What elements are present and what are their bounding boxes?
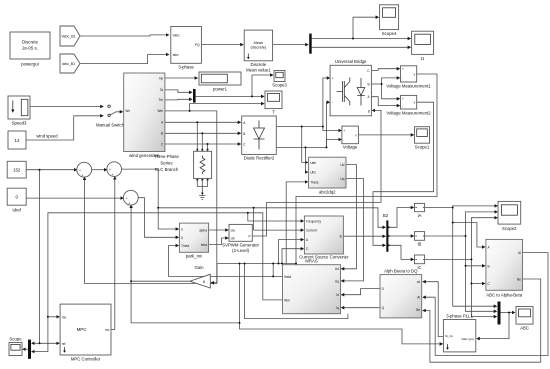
svg-text:(2-Level): (2-Level)	[232, 248, 250, 253]
svg-text:152: 152	[13, 168, 21, 173]
svg-text:alpha: alpha	[199, 228, 207, 232]
svg-text:Al: Al	[518, 251, 521, 255]
svg-text:-: -	[332, 101, 333, 105]
svg-text:+: +	[126, 197, 128, 201]
svg-text:Wm: Wm	[284, 298, 290, 302]
svg-text:ABC to Alpha-Beta: ABC to Alpha-Beta	[486, 293, 522, 298]
svg-text:B: B	[488, 264, 490, 268]
svg-text:+: +	[402, 97, 404, 101]
svg-text:Vabc: Vabc	[173, 33, 180, 37]
svg-text:power1: power1	[213, 87, 228, 92]
svg-text:powergui: powergui	[21, 62, 38, 67]
svg-text:PQ: PQ	[195, 43, 200, 47]
svg-text:+: +	[343, 129, 345, 133]
svg-text:Voltage Measurement1: Voltage Measurement1	[386, 84, 431, 89]
svg-text:Alph Beeta to DQ: Alph Beeta to DQ	[384, 269, 418, 274]
svg-text:ABC: ABC	[520, 326, 529, 331]
svg-text:Vabc (pu): Vabc (pu)	[461, 337, 474, 341]
svg-text:Speed3: Speed3	[12, 121, 27, 126]
svg-text:Three-Phase: Three-Phase	[154, 154, 179, 159]
svg-text:Vabc_B1: Vabc_B1	[61, 35, 75, 39]
svg-text:B: B	[367, 82, 369, 86]
svg-text:Scope1: Scope1	[415, 145, 430, 150]
svg-text:+: +	[128, 201, 130, 205]
svg-text:-: -	[343, 138, 344, 142]
svg-text:iA: iA	[418, 213, 422, 218]
svg-text:-: -	[402, 76, 403, 80]
svg-text:Ud: Ud	[340, 163, 344, 167]
svg-text:park_inv: park_inv	[186, 254, 203, 259]
svg-text:Mean value1: Mean value1	[246, 68, 271, 73]
svg-text:Scope: Scope	[9, 337, 22, 342]
svg-text:12: 12	[15, 138, 20, 143]
svg-text:iB: iB	[418, 242, 422, 247]
svg-text:Ud: Ud	[335, 267, 339, 271]
svg-text:Iq: Iq	[336, 306, 339, 310]
svg-text:T: T	[272, 110, 275, 115]
svg-text:theta: theta	[284, 275, 291, 279]
svg-text:Voltage: Voltage	[343, 145, 358, 150]
svg-text:Voltage Measurement2: Voltage Measurement2	[386, 111, 431, 116]
svg-text:B2: B2	[383, 213, 389, 218]
svg-text:wind speed: wind speed	[36, 134, 58, 139]
svg-text:Si_Co: Si_Co	[445, 334, 454, 338]
svg-text:Tm: Tm	[159, 98, 164, 102]
svg-text:Frequency: Frequency	[306, 219, 321, 223]
svg-text:B: B	[161, 132, 163, 136]
svg-text:Al: Al	[417, 296, 420, 300]
svg-text:2e-05 s.: 2e-05 s.	[22, 46, 38, 51]
svg-text:q: q	[181, 236, 183, 240]
svg-text:mo: mo	[62, 315, 67, 319]
svg-text:Gain: Gain	[194, 265, 204, 270]
svg-text:Hp: Hp	[159, 76, 163, 80]
svg-text:Ws: Ws	[125, 109, 130, 113]
svg-text:Iabc: Iabc	[173, 53, 179, 57]
svg-text:Id: Id	[336, 293, 339, 297]
svg-text:Ta: Ta	[160, 88, 164, 92]
svg-text:Ub: Ub	[231, 236, 235, 240]
svg-text:ref: ref	[62, 342, 66, 346]
svg-text:B: B	[243, 132, 245, 136]
svg-text:+: +	[109, 168, 111, 172]
svg-text:(discrete): (discrete)	[250, 46, 267, 50]
svg-text:Manual Switch: Manual Switch	[96, 123, 125, 128]
svg-text:Series: Series	[160, 161, 172, 166]
svg-text:d: d	[181, 227, 183, 231]
svg-text:Ubc: Ubc	[310, 171, 316, 175]
svg-text:Idref: Idref	[12, 208, 21, 213]
svg-text:MPC: MPC	[77, 327, 87, 332]
svg-text:Mean: Mean	[254, 41, 264, 45]
svg-text:Scope2: Scope2	[502, 226, 517, 231]
svg-text:Scope3: Scope3	[272, 83, 287, 88]
svg-text:B: B	[340, 235, 342, 239]
svg-text:3-phase: 3-phase	[178, 65, 194, 70]
svg-text:t1: t1	[421, 56, 425, 61]
svg-text:3-phase PLL1: 3-phase PLL1	[446, 314, 473, 319]
svg-text:Current: Current	[306, 229, 317, 233]
svg-text:Theta: Theta	[181, 244, 189, 248]
svg-text:Uq: Uq	[340, 177, 344, 181]
svg-text:RLC Branch: RLC Branch	[155, 167, 179, 172]
svg-text:SVPWM Generator: SVPWM Generator	[222, 243, 259, 248]
svg-text:Be: Be	[517, 278, 521, 282]
svg-text:abc2dq2: abc2dq2	[319, 190, 336, 195]
svg-text:Uab: Uab	[310, 161, 316, 165]
svg-text:Discrete: Discrete	[22, 40, 39, 45]
svg-text:Wm: Wm	[158, 109, 164, 113]
svg-text:MRAS: MRAS	[305, 259, 318, 264]
svg-text:+: +	[112, 173, 114, 177]
svg-text:Be: Be	[416, 308, 420, 312]
svg-text:mv: mv	[105, 328, 110, 332]
svg-text:wt: wt	[417, 280, 420, 284]
svg-text:Discrete: Discrete	[251, 62, 267, 67]
svg-text:Uq: Uq	[335, 279, 339, 283]
svg-text:Ua: Ua	[231, 228, 235, 232]
svg-text:-: -	[402, 104, 403, 108]
svg-text:Diode Rectifier2: Diode Rectifier2	[244, 156, 275, 161]
svg-text:Theta: Theta	[310, 180, 318, 184]
svg-text:iC: iC	[417, 265, 421, 270]
svg-text:+: +	[82, 173, 84, 177]
svg-text:+: +	[402, 67, 404, 71]
svg-text:+: +	[79, 169, 81, 173]
svg-text:g: g	[368, 109, 370, 113]
svg-text:Universal Bridge: Universal Bridge	[335, 59, 367, 64]
svg-text:Scope4: Scope4	[382, 31, 397, 36]
svg-text:beta: beta	[201, 243, 207, 247]
svg-text:MPC Controller: MPC Controller	[71, 357, 101, 362]
svg-text:Iabc_B1: Iabc_B1	[62, 62, 75, 66]
svg-text:P: P	[249, 234, 251, 238]
svg-text:+: +	[332, 76, 334, 80]
